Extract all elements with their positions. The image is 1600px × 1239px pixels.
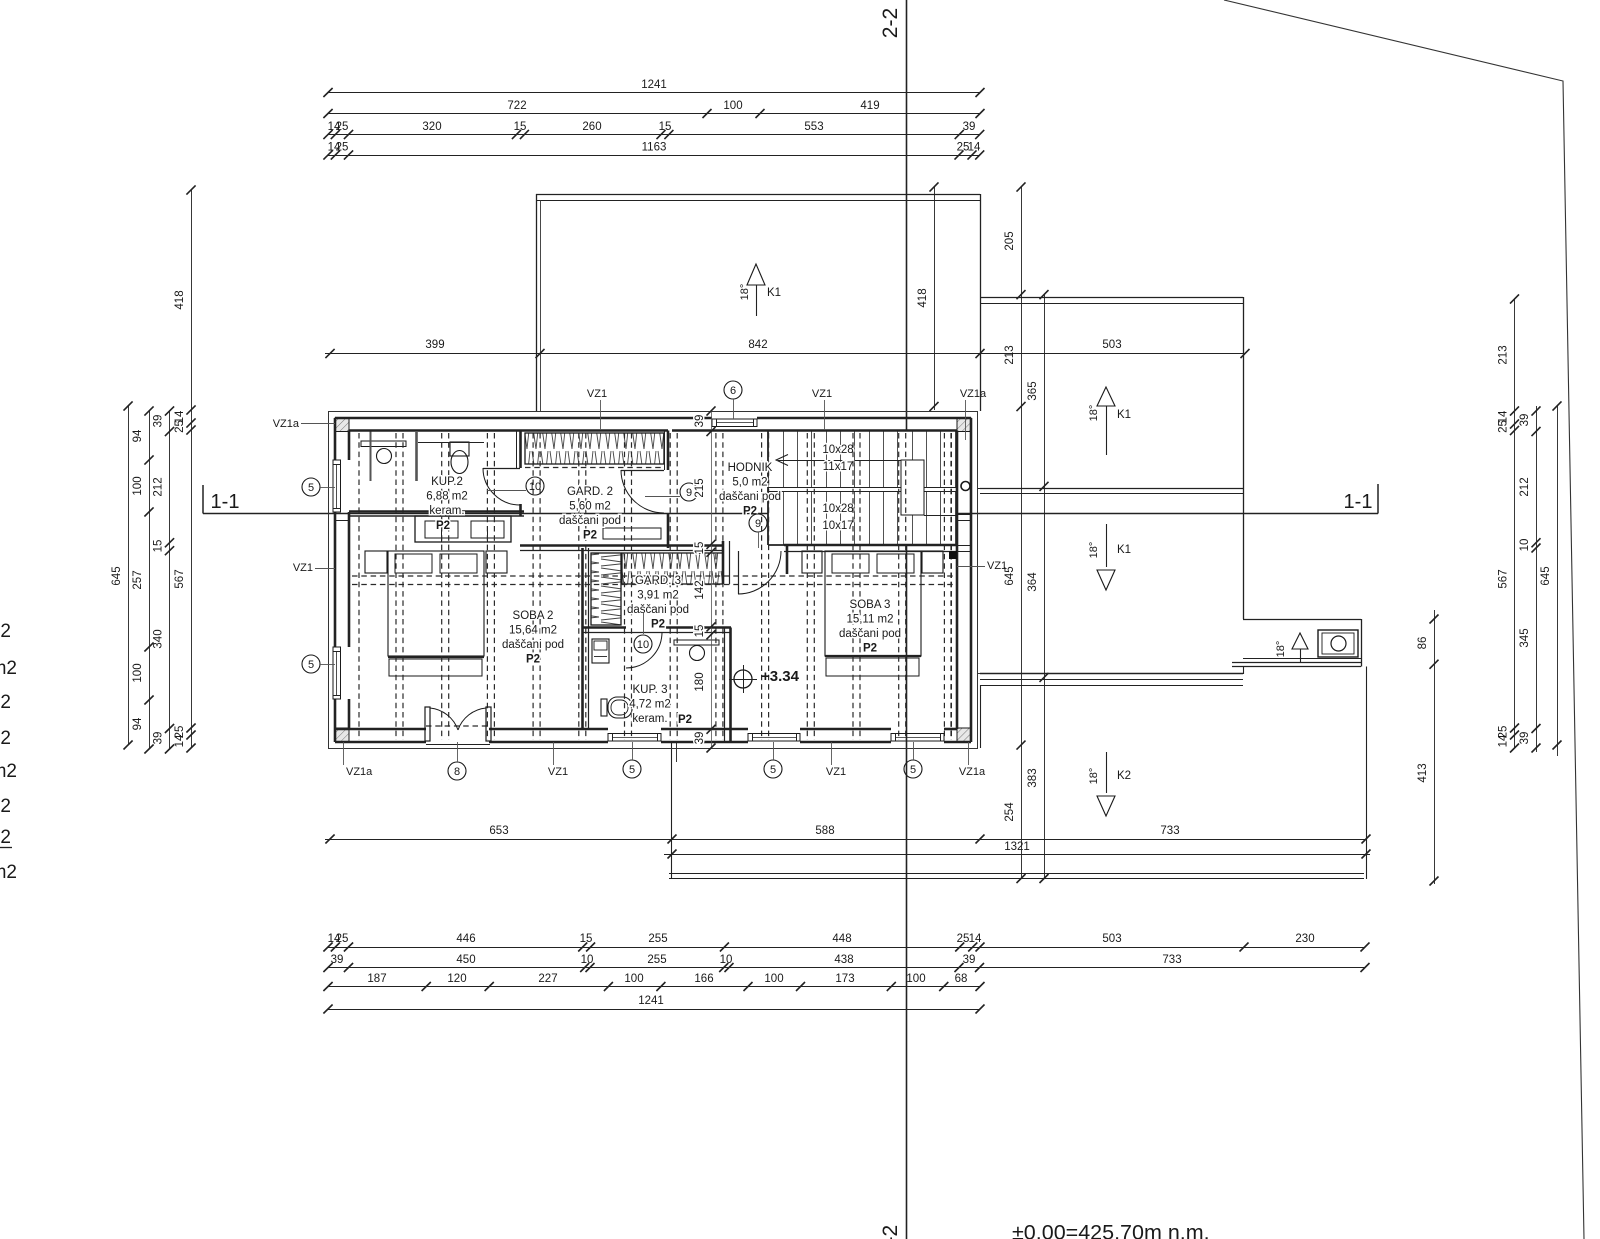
stair void rectangle <box>901 460 924 515</box>
svg-text:18°: 18° <box>1275 641 1287 658</box>
svg-text:1-1: 1-1 <box>1344 491 1373 513</box>
staircase <box>768 431 957 545</box>
svg-text:438: 438 <box>834 954 853 966</box>
svg-text:15: 15 <box>514 121 527 133</box>
left edge cut-off schedule text <box>0 621 17 883</box>
svg-text:keram.: keram. <box>632 713 667 725</box>
svg-text:86: 86 <box>1417 637 1429 650</box>
svg-text:15,64 m2: 15,64 m2 <box>509 625 557 637</box>
svg-text:418: 418 <box>174 290 186 309</box>
svg-text:VZ1a: VZ1a <box>959 766 986 778</box>
room labels <box>426 462 901 726</box>
svg-text:9: 9 <box>686 487 692 499</box>
svg-text:503: 503 <box>1102 339 1121 351</box>
outer walls <box>335 417 712 420</box>
KUP.2 toilet <box>450 442 469 456</box>
svg-text:14: 14 <box>174 734 186 747</box>
svg-text:18°: 18° <box>1088 542 1100 559</box>
svg-text:14: 14 <box>968 142 981 154</box>
stair walk line with arrow <box>778 460 901 462</box>
KUP.2 shelf <box>361 441 406 447</box>
stair labels <box>822 444 853 532</box>
svg-text:722: 722 <box>507 100 526 112</box>
annexe roof arrow 18deg <box>1292 633 1308 649</box>
KUP3 toilet <box>601 699 607 716</box>
svg-text:KUP. 3: KUP. 3 <box>633 684 668 696</box>
svg-text:18°: 18° <box>1088 405 1100 422</box>
svg-text:450: 450 <box>456 954 475 966</box>
svg-text:120: 120 <box>447 973 466 985</box>
svg-text:daščani pod: daščani pod <box>559 515 621 527</box>
svg-text:m2: m2 <box>0 658 17 679</box>
svg-text:100: 100 <box>132 476 144 495</box>
svg-text:P2: P2 <box>678 714 692 726</box>
svg-text:P2: P2 <box>743 506 757 518</box>
svg-text:2: 2 <box>0 692 11 713</box>
svg-text:5,0 m2: 5,0 m2 <box>732 477 767 489</box>
svg-text:364: 364 <box>1027 572 1039 592</box>
KUP.2 partition line <box>370 430 372 481</box>
+3.34 level marker <box>734 670 752 688</box>
svg-text:100: 100 <box>723 100 742 112</box>
svg-text:2-2: 2-2 <box>879 1225 902 1239</box>
SOBA2 dresser counter <box>415 516 511 542</box>
svg-text:SOBA 2: SOBA 2 <box>513 610 554 622</box>
svg-text:94: 94 <box>132 717 144 730</box>
svg-text:205: 205 <box>1004 231 1016 250</box>
svg-text:5: 5 <box>770 764 776 776</box>
right inner dimension chains <box>917 182 1049 883</box>
svg-text:340: 340 <box>153 629 165 648</box>
svg-text:842: 842 <box>748 339 767 351</box>
svg-text:10: 10 <box>581 954 594 966</box>
svg-text:257: 257 <box>132 570 144 589</box>
svg-text:100: 100 <box>764 973 783 985</box>
left dimension chains <box>111 185 196 753</box>
svg-text:m2: m2 <box>0 761 17 782</box>
svg-text:733: 733 <box>1160 825 1179 837</box>
svg-text:K2: K2 <box>1117 770 1131 782</box>
svg-text:645: 645 <box>1540 566 1552 585</box>
svg-text:KUP.2: KUP.2 <box>431 476 463 488</box>
svg-text:1-1: 1-1 <box>211 491 240 513</box>
svg-text:383: 383 <box>1027 768 1039 787</box>
interior walls <box>349 510 524 513</box>
svg-text:1321: 1321 <box>1004 841 1030 853</box>
svg-text:166: 166 <box>694 973 713 985</box>
svg-text:254: 254 <box>1004 802 1016 822</box>
K2 roof left edge <box>671 742 673 879</box>
svg-text:m2: m2 <box>0 862 17 883</box>
KUP3 sink shelf <box>674 640 719 645</box>
svg-text:K1: K1 <box>767 287 781 299</box>
svg-text:25: 25 <box>336 142 349 154</box>
svg-text:GARD. 2: GARD. 2 <box>567 486 613 498</box>
svg-text:daščani pod: daščani pod <box>839 628 901 640</box>
roof arrow K1 garage <box>747 264 765 285</box>
svg-text:10: 10 <box>1519 539 1531 552</box>
section line 2-2 vertical <box>906 0 908 1239</box>
property boundary line <box>1224 0 1584 1239</box>
svg-text:567: 567 <box>174 569 186 588</box>
K2 roof right edge <box>1366 667 1368 880</box>
svg-text:6,88 m2: 6,88 m2 <box>426 491 468 503</box>
svg-text:14: 14 <box>1498 734 1510 747</box>
svg-text:14: 14 <box>969 933 982 945</box>
svg-text:255: 255 <box>648 933 667 945</box>
svg-text:K1: K1 <box>1117 544 1131 556</box>
GARD2 shelf P2 box <box>603 528 661 539</box>
svg-text:39: 39 <box>963 121 976 133</box>
svg-text:39: 39 <box>1519 732 1531 745</box>
interior dimension chain <box>694 406 716 752</box>
svg-text:VZ1a: VZ1a <box>960 388 987 400</box>
annexe canopy outline <box>1243 619 1361 621</box>
roof arrow K1 right lower (down) <box>1106 524 1108 567</box>
GARD2 wardrobe hatched <box>525 433 664 464</box>
svg-text:10: 10 <box>529 481 541 493</box>
right roof K1 outline <box>980 297 1243 299</box>
hatched wall corner blocks <box>335 418 349 432</box>
svg-text:VZ1: VZ1 <box>293 562 313 574</box>
svg-text:653: 653 <box>489 825 508 837</box>
windows left wall <box>333 460 341 512</box>
svg-text:142: 142 <box>694 580 706 599</box>
svg-text:2-2: 2-2 <box>879 8 902 38</box>
svg-text:9: 9 <box>755 518 761 530</box>
svg-text:100: 100 <box>624 973 643 985</box>
french door SOBA2 <box>425 707 430 741</box>
svg-text:3,91 m2: 3,91 m2 <box>637 590 679 602</box>
svg-text:212: 212 <box>153 477 165 496</box>
svg-text:10x28: 10x28 <box>822 503 853 515</box>
svg-text:255: 255 <box>647 954 666 966</box>
window top wall corridor <box>712 419 757 427</box>
svg-text:2: 2 <box>0 621 11 642</box>
garage roof outline K1 top <box>536 194 980 196</box>
svg-text:446: 446 <box>456 933 475 945</box>
svg-text:P2: P2 <box>436 520 450 532</box>
svg-text:keram.: keram. <box>429 505 464 517</box>
KUP.2 shower partition <box>415 432 418 481</box>
svg-text:588: 588 <box>815 825 834 837</box>
svg-text:39: 39 <box>153 732 165 745</box>
GARD3 wardrobe horizontal hatched <box>622 553 723 584</box>
svg-text:11x17: 11x17 <box>823 461 853 473</box>
svg-text:39: 39 <box>963 954 976 966</box>
svg-text:+3.34: +3.34 <box>761 668 800 685</box>
svg-text:173: 173 <box>835 973 854 985</box>
svg-text:10: 10 <box>637 639 649 651</box>
svg-text:553: 553 <box>804 121 823 133</box>
svg-text:18°: 18° <box>739 284 751 301</box>
svg-text:18°: 18° <box>1088 768 1100 785</box>
svg-text:39: 39 <box>694 415 706 428</box>
windows bottom wall <box>608 734 661 742</box>
svg-text:213: 213 <box>1498 345 1510 364</box>
circle marker right wall <box>961 482 970 491</box>
svg-text:365: 365 <box>1027 381 1039 400</box>
svg-text:25: 25 <box>174 420 186 433</box>
SOBA2 bed <box>365 551 387 573</box>
right outer dimension chains <box>1417 294 1562 885</box>
svg-text:daščani pod: daščani pod <box>627 604 689 616</box>
svg-text:daščani pod: daščani pod <box>502 639 564 651</box>
svg-text:260: 260 <box>582 121 601 133</box>
svg-text:100: 100 <box>906 973 925 985</box>
svg-text:15: 15 <box>659 121 672 133</box>
svg-text:6: 6 <box>730 385 736 397</box>
svg-text:VZ1: VZ1 <box>548 766 568 778</box>
svg-text:418: 418 <box>917 288 929 307</box>
svg-text:5: 5 <box>629 764 635 776</box>
svg-text:25: 25 <box>336 933 349 945</box>
svg-text:P2: P2 <box>583 530 597 542</box>
svg-text:15: 15 <box>580 933 593 945</box>
svg-text:15,11 m2: 15,11 m2 <box>846 614 893 626</box>
door KUP3 <box>626 632 662 634</box>
svg-text:8: 8 <box>454 766 460 778</box>
svg-text:daščani pod: daščani pod <box>719 491 781 503</box>
svg-text:10: 10 <box>720 954 733 966</box>
door GARD2 <box>621 470 664 472</box>
svg-text:645: 645 <box>1004 566 1016 585</box>
rafter dashed lines <box>352 433 956 740</box>
svg-text:25: 25 <box>1498 420 1510 433</box>
svg-text:413: 413 <box>1417 763 1429 782</box>
svg-text:503: 503 <box>1102 933 1121 945</box>
svg-text:1241: 1241 <box>641 79 667 91</box>
svg-text:GARD. 3: GARD. 3 <box>635 575 681 587</box>
svg-text:25: 25 <box>957 933 970 945</box>
svg-text:1241: 1241 <box>638 995 664 1007</box>
svg-text:100: 100 <box>132 663 144 682</box>
svg-text:VZ1a: VZ1a <box>273 418 300 430</box>
svg-text:2: 2 <box>0 728 11 749</box>
svg-text:10x17: 10x17 <box>822 520 853 532</box>
svg-text:15: 15 <box>694 625 706 638</box>
svg-text:320: 320 <box>422 121 441 133</box>
section line 1-1 horizontal <box>203 513 1378 515</box>
KUP.2 sink circle <box>377 449 392 464</box>
svg-text:15: 15 <box>694 542 706 555</box>
svg-text:VZ1: VZ1 <box>587 388 607 400</box>
svg-text:419: 419 <box>860 100 879 112</box>
right roof K1 bottom eave <box>980 673 1243 675</box>
svg-text:345: 345 <box>1519 628 1531 647</box>
svg-text:733: 733 <box>1162 954 1181 966</box>
svg-text:5: 5 <box>308 659 314 671</box>
svg-text:5,60 m2: 5,60 m2 <box>569 501 611 513</box>
svg-text:94: 94 <box>132 429 144 442</box>
svg-text:180: 180 <box>694 672 706 691</box>
svg-text:P2: P2 <box>651 619 665 631</box>
svg-text:227: 227 <box>538 973 557 985</box>
right roof ridge line <box>980 488 1243 490</box>
outer eave thin outline <box>329 412 978 749</box>
svg-text:213: 213 <box>1004 345 1016 364</box>
svg-text:SOBA 3: SOBA 3 <box>850 599 891 611</box>
top dimension block <box>323 79 1249 358</box>
roof arrow K2 (down) <box>1106 752 1108 793</box>
svg-text:HODNIK: HODNIK <box>728 462 773 474</box>
annexe chimney box <box>1318 630 1358 657</box>
svg-text:39: 39 <box>153 415 165 428</box>
svg-text:VZ1a: VZ1a <box>346 766 373 778</box>
svg-text:15: 15 <box>153 540 165 553</box>
svg-text:39: 39 <box>331 954 344 966</box>
svg-text:2: 2 <box>0 827 11 848</box>
KUP3 washing machine <box>592 639 609 663</box>
svg-text:39: 39 <box>694 732 706 745</box>
svg-text:VZ1: VZ1 <box>826 766 846 778</box>
svg-text:K1: K1 <box>1117 409 1131 421</box>
lower eave lines <box>664 854 1370 856</box>
svg-text:215: 215 <box>694 478 706 497</box>
svg-text:5: 5 <box>910 764 916 776</box>
door corridor-SOBA3 <box>738 551 740 594</box>
svg-text:187: 187 <box>367 973 386 985</box>
svg-text:5: 5 <box>308 482 314 494</box>
svg-text:212: 212 <box>1519 477 1531 496</box>
svg-text:230: 230 <box>1295 933 1314 945</box>
svg-text:25: 25 <box>336 121 349 133</box>
svg-text:68: 68 <box>955 973 968 985</box>
door KUP2 <box>483 468 520 470</box>
svg-text:448: 448 <box>832 933 851 945</box>
svg-text:P2: P2 <box>863 643 877 655</box>
svg-text:2: 2 <box>0 796 11 817</box>
roof arrow K1 right upper <box>1097 387 1115 406</box>
svg-text:567: 567 <box>1498 569 1510 588</box>
svg-text:±0.00=425.70m n.m.: ±0.00=425.70m n.m. <box>1012 1221 1210 1239</box>
GARD3 wardrobe vertical hatched <box>591 553 621 625</box>
svg-text:VZ1: VZ1 <box>812 388 832 400</box>
bottom dimension block <box>323 825 1370 1014</box>
VZ1 black marker right wall <box>949 551 957 559</box>
svg-text:399: 399 <box>425 339 444 351</box>
svg-text:1163: 1163 <box>642 142 667 154</box>
svg-text:P2: P2 <box>526 654 540 666</box>
svg-text:645: 645 <box>111 566 123 585</box>
svg-text:10x28: 10x28 <box>822 444 853 456</box>
SOBA3 bed <box>802 551 822 573</box>
svg-text:39: 39 <box>1519 414 1531 427</box>
svg-text:4,72 m2: 4,72 m2 <box>629 699 671 711</box>
